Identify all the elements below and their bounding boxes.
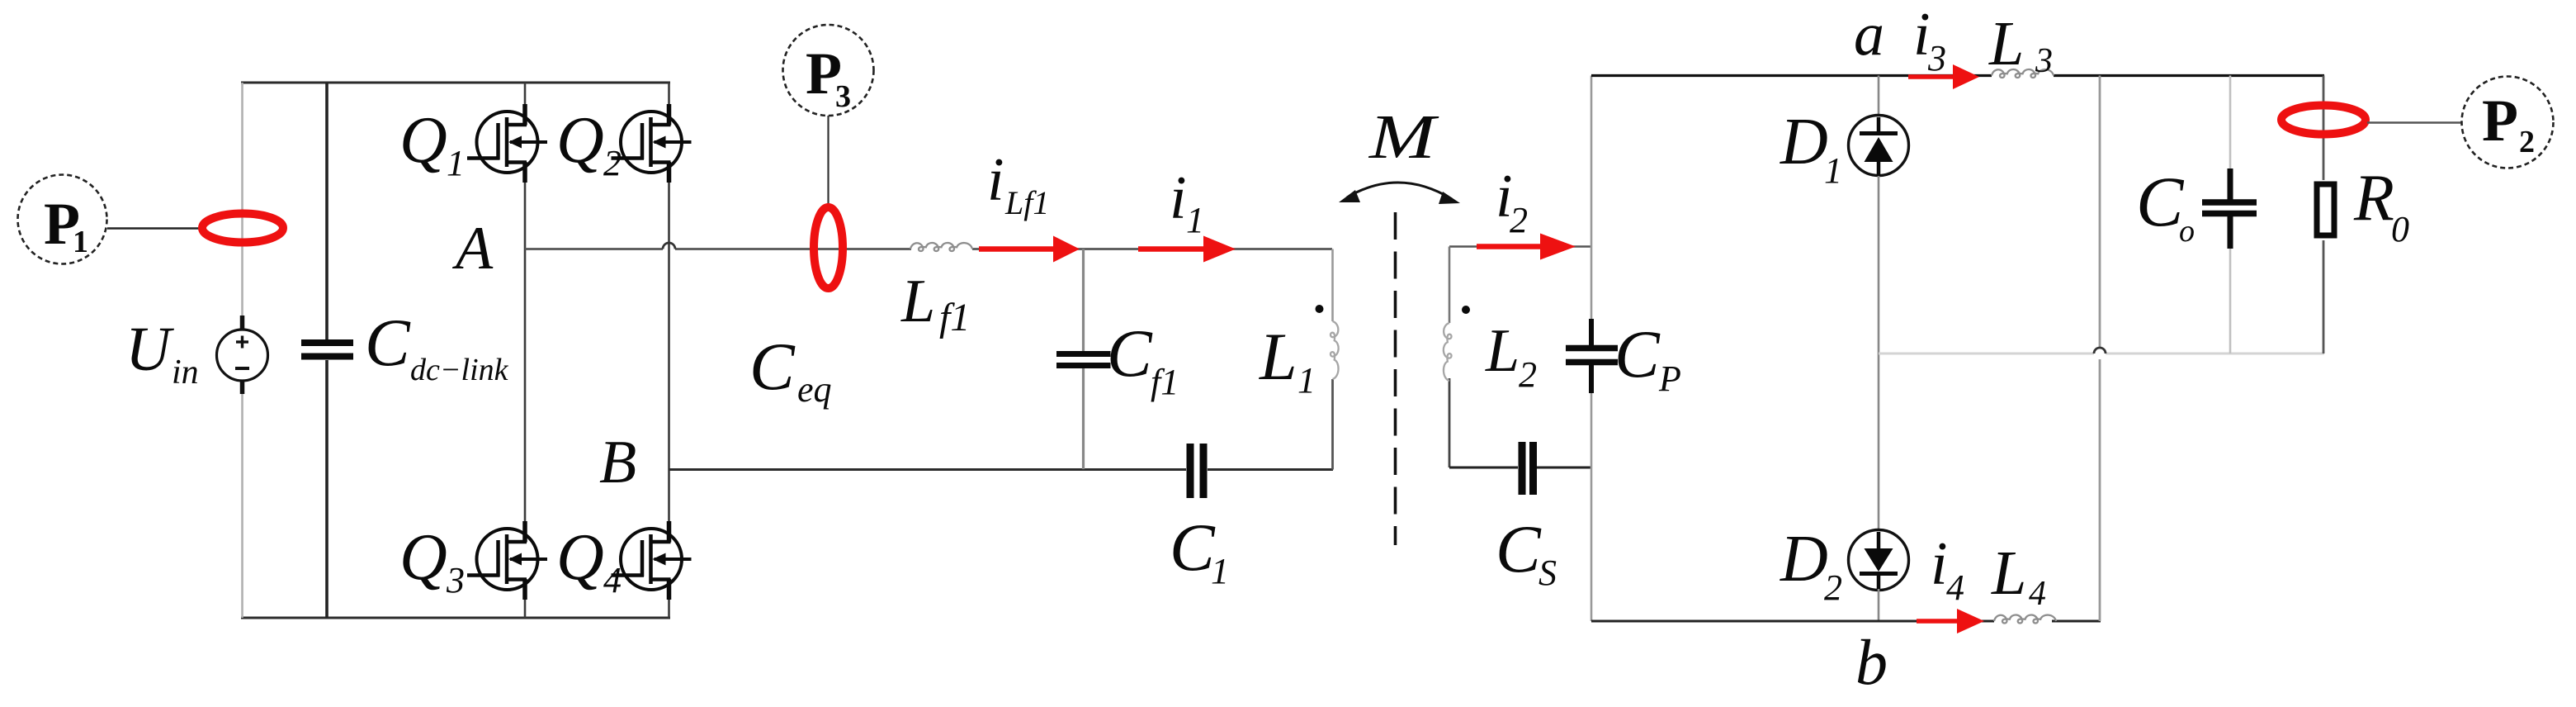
wire leg1 vertical	[524, 83, 527, 618]
svg-text:f1: f1	[1151, 362, 1179, 402]
current arrow i1	[1138, 236, 1236, 263]
wire crossover hop at leg2	[663, 243, 675, 249]
label Q1	[399, 104, 465, 183]
wire P1 lead	[107, 227, 199, 230]
svg-text:4: 4	[1946, 567, 1964, 608]
label L3	[1988, 9, 2053, 80]
wire secondary top	[1449, 245, 1591, 248]
inductor L2	[1444, 247, 1452, 468]
svg-text:D: D	[1780, 106, 1828, 178]
wire P2 lead	[2367, 121, 2462, 124]
wire mid rail	[1879, 353, 2324, 355]
svg-text:o: o	[2179, 214, 2195, 249]
L2 polarity dot	[1462, 306, 1470, 314]
svg-text:L: L	[900, 268, 935, 335]
transistor Q1	[467, 104, 547, 183]
svg-text:i: i	[1931, 530, 1948, 598]
svg-text:Q: Q	[556, 104, 604, 177]
coupling arc with arrowheads	[1339, 183, 1460, 204]
svg-text:C: C	[2136, 162, 2185, 241]
inductor L3	[1992, 69, 2054, 78]
label Cp	[1614, 316, 1681, 399]
capacitor Cdc-link	[301, 83, 353, 618]
wire L4 return vertical	[2099, 76, 2101, 622]
svg-text:a: a	[1854, 1, 1884, 69]
label Lf1	[900, 268, 970, 339]
label D1	[1780, 106, 1842, 191]
transistor Q2	[612, 104, 692, 183]
svg-text:eq: eq	[797, 369, 832, 410]
svg-text:1: 1	[1824, 150, 1842, 191]
label Q2	[556, 104, 622, 183]
inductor Lf1	[910, 243, 972, 251]
probe P2 red ellipse	[2281, 106, 2366, 135]
label Q4	[556, 521, 622, 600]
label M mutual inductance	[1368, 102, 1439, 172]
capacitor Co	[2202, 168, 2257, 249]
svg-text:4: 4	[603, 560, 622, 600]
capacitor Cs	[1522, 442, 1534, 495]
svg-text:P: P	[1658, 358, 1681, 399]
svg-text:in: in	[172, 353, 199, 391]
svg-text:2: 2	[2519, 125, 2535, 159]
wire leg2 vertical	[668, 83, 670, 618]
node a label	[1854, 1, 1884, 69]
diode D2	[1849, 353, 1909, 621]
label Cs	[1496, 511, 1557, 593]
wire rectifier top bus	[1591, 74, 2324, 77]
wire secondary bottom stub	[1449, 467, 1591, 469]
label i1	[1170, 164, 1204, 240]
label L1	[1259, 319, 1316, 401]
wire rectifier input vertical	[1591, 76, 1593, 622]
probe P3 circle	[783, 25, 874, 116]
label Ceq	[749, 329, 832, 410]
svg-text:1: 1	[447, 143, 465, 183]
label L4	[1991, 539, 2046, 613]
svg-text:C: C	[1496, 511, 1542, 586]
svg-text:3: 3	[1927, 38, 1946, 78]
wire R0 branch vertical	[2323, 76, 2325, 354]
node B label	[599, 429, 636, 496]
svg-text:L: L	[1988, 9, 2024, 78]
svg-text:L: L	[1259, 319, 1297, 394]
svg-text:P: P	[2482, 88, 2518, 154]
transistor Q3	[467, 521, 547, 600]
label Co	[2136, 162, 2195, 249]
current arrow i2	[1477, 234, 1576, 260]
svg-text:i: i	[1170, 164, 1187, 232]
wire bottom bus primary	[241, 617, 670, 619]
wire bottom rail	[1591, 620, 2101, 623]
svg-text:b: b	[1855, 626, 1888, 698]
label C1	[1170, 510, 1229, 591]
capacitor Cp	[1566, 319, 1618, 393]
node A label	[451, 215, 494, 282]
svg-text:Lf1: Lf1	[1004, 184, 1049, 221]
svg-text:U: U	[125, 315, 174, 384]
node b label	[1855, 626, 1888, 698]
svg-text:3: 3	[2035, 42, 2053, 80]
svg-text:R: R	[2353, 162, 2394, 235]
resistor R0	[2317, 184, 2334, 235]
svg-text:4: 4	[2029, 575, 2046, 613]
svg-text:2: 2	[603, 143, 622, 183]
svg-text:1: 1	[73, 225, 88, 259]
current arrow iLf1	[979, 236, 1080, 263]
L1 polarity dot	[1316, 305, 1324, 313]
current arrow i4	[1917, 609, 1984, 633]
wire node A horizontal	[525, 248, 1332, 250]
dashed separation line	[1394, 212, 1397, 545]
svg-text:S: S	[1539, 553, 1557, 593]
svg-text:L: L	[1991, 539, 2026, 608]
svg-text:2: 2	[1824, 567, 1842, 608]
capacitor C1	[1190, 444, 1203, 498]
svg-text:D: D	[1780, 523, 1828, 595]
label Cf1	[1107, 316, 1179, 402]
svg-text:3: 3	[446, 560, 465, 600]
transistor Q4	[612, 521, 692, 600]
svg-text:2: 2	[1510, 200, 1528, 240]
current arrow i3	[1908, 64, 1979, 89]
wire crossover hop mid rail	[2094, 348, 2106, 353]
svg-text:i: i	[987, 146, 1004, 214]
svg-text:M: M	[1368, 102, 1439, 172]
svg-text:A: A	[451, 215, 494, 282]
svg-text:2: 2	[1519, 354, 1537, 395]
svg-text:dc−link: dc−link	[410, 353, 509, 387]
svg-text:L: L	[1485, 317, 1520, 385]
svg-text:B: B	[599, 429, 636, 496]
wire node B horizontal	[669, 468, 1334, 471]
source Uin	[217, 316, 268, 394]
label i2	[1496, 163, 1528, 240]
inductor L4	[1994, 614, 2056, 623]
label D2	[1780, 523, 1842, 608]
probe P2 circle	[2462, 77, 2554, 168]
probe P3 red ellipse	[814, 207, 843, 288]
label L2	[1485, 317, 1537, 395]
svg-text:C: C	[749, 329, 796, 404]
probe P1 circle	[18, 175, 107, 264]
svg-text:C: C	[1107, 316, 1153, 391]
svg-text:Q: Q	[399, 521, 447, 594]
label R0	[2353, 162, 2409, 249]
wire left vertical branch	[241, 83, 243, 618]
svg-text:C: C	[1614, 316, 1661, 391]
label iLf1	[987, 146, 1049, 221]
svg-text:3: 3	[835, 79, 851, 114]
wire P3 lead	[827, 116, 829, 206]
svg-text:Q: Q	[556, 521, 604, 594]
svg-text:1: 1	[1211, 551, 1229, 591]
svg-text:f1: f1	[939, 296, 970, 339]
inductor L1	[1331, 249, 1339, 470]
svg-text:1: 1	[1186, 200, 1204, 240]
probe P1 red ellipse	[202, 214, 283, 243]
diode D1	[1849, 76, 1909, 354]
label i4	[1931, 530, 1964, 608]
svg-text:1: 1	[1297, 360, 1316, 401]
svg-text:C: C	[1170, 510, 1216, 585]
svg-text:0: 0	[2391, 209, 2409, 249]
wire top bus primary	[241, 82, 670, 84]
label Q3	[399, 521, 465, 600]
wire Co vertical	[2229, 76, 2232, 354]
label i3	[1913, 1, 1946, 78]
svg-text:Q: Q	[399, 104, 447, 177]
svg-text:C: C	[365, 305, 411, 380]
label Uin	[125, 315, 199, 391]
capacitor Cf1	[1056, 249, 1111, 470]
label Cdc-link	[365, 305, 509, 387]
